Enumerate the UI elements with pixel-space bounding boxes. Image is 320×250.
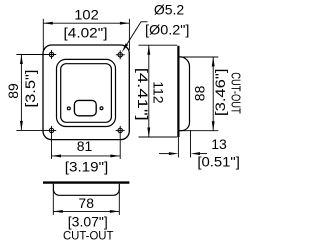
side dish profile: [180, 57, 190, 131]
screw hole right: [100, 107, 103, 110]
svg-text:81: 81: [77, 138, 93, 154]
dim 89 line: [20, 55, 22, 131]
svg-text:CUT-OUT: CUT-OUT: [229, 72, 243, 114]
svg-text:[4.02"]: [4.02"]: [64, 25, 108, 41]
svg-text:[4.41"]: [4.41"]: [135, 68, 151, 121]
connector cutout: [74, 100, 96, 115]
screw hole left: [67, 107, 70, 110]
corner hole top-left: [49, 52, 53, 56]
svg-text:88: 88: [191, 85, 207, 101]
svg-text:[3.07"]: [3.07"]: [68, 213, 108, 229]
svg-text:CUT-OUT: CUT-OUT: [63, 231, 114, 243]
dim 13 extension lines: [177, 137, 179, 158]
svg-text:78: 78: [78, 195, 94, 211]
svg-text:Ø5.2: Ø5.2: [154, 2, 185, 18]
side plate face: [177, 46, 179, 137]
svg-text:112: 112: [151, 81, 167, 104]
svg-text:102: 102: [74, 6, 99, 22]
svg-text:13: 13: [211, 136, 227, 152]
bottom plate edge: [43, 181, 129, 183]
dim 81 line: [52, 155, 120, 157]
svg-text:[3.19"]: [3.19"]: [65, 159, 109, 175]
bottom dish profile: [53, 184, 119, 196]
dim 78 extension lines: [52, 189, 54, 215]
dim 102 line: [43, 22, 129, 24]
corner hole top-right: [118, 53, 122, 57]
dish inner edge: [61, 64, 112, 123]
dim 102 extension lines: [42, 19, 44, 50]
dim 112 extension lines: [139, 44, 178, 46]
plate outline: [43, 45, 129, 140]
svg-text:[3.5"]: [3.5"]: [22, 70, 38, 108]
svg-text:[Ø0.2"]: [Ø0.2"]: [145, 21, 189, 37]
corner hole bottom-right: [118, 128, 122, 132]
svg-text:[3.46"]: [3.46"]: [212, 69, 228, 117]
dim 88 extension lines: [180, 56, 219, 58]
dim 13 arrows: [159, 153, 170, 155]
svg-text:89: 89: [5, 83, 21, 99]
dim 88 line: [212, 57, 214, 131]
dim 78 line: [53, 210, 119, 212]
dim 112 line: [148, 45, 150, 137]
dish outer lip: [57, 59, 116, 126]
svg-text:[0.51"]: [0.51"]: [197, 154, 240, 170]
corner hole bottom-left: [49, 128, 53, 132]
leader to hole: [127, 22, 141, 44]
